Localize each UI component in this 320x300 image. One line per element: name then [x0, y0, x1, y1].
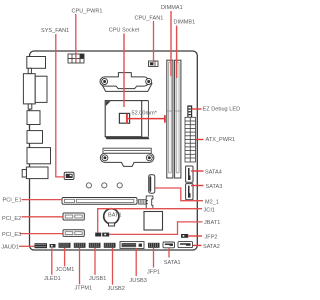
header JFP1: [148, 243, 160, 248]
connector SYS_FAN1: [64, 172, 74, 179]
header JCI1: [95, 233, 101, 237]
svg-text:JLED1: JLED1: [44, 276, 61, 282]
svg-text:JCOM1: JCOM1: [56, 267, 75, 273]
wire DIMMA1 leader: [170, 11, 172, 76]
wire JFP1 leader: [153, 248, 155, 268]
wire JFP2 leader: [188, 235, 202, 237]
svg-text:JFP1: JFP1: [147, 269, 160, 275]
wire JAUD1 leader: [19, 245, 35, 247]
svg-text:CPU_FAN1: CPU_FAN1: [135, 15, 164, 21]
svg-text:BAT1: BAT1: [108, 212, 122, 218]
wire JBAT1 leader: [109, 222, 202, 235]
wire PCI_E2 leader: [22, 216, 64, 218]
connector SATA1: [163, 242, 175, 248]
rear IO lan usb block: [27, 148, 51, 164]
wire EZ debug LED leader: [192, 108, 202, 110]
board outline: [30, 51, 198, 250]
wire SYS_FAN1 leader: [56, 34, 65, 177]
svg-text:52.00mm*: 52.00mm*: [132, 111, 158, 117]
wire JUSB2 leader: [112, 248, 114, 285]
mounting hole 2: [102, 183, 107, 188]
header JUSB1: [89, 243, 101, 248]
rear IO connector PS2: [27, 57, 46, 69]
svg-text:DIMMB1: DIMMB1: [174, 20, 196, 26]
wire JCOM1 leader: [64, 248, 66, 266]
svg-text:PCI_E3: PCI_E3: [2, 232, 21, 238]
svg-text:SATA1: SATA1: [164, 260, 181, 266]
svg-text:PCI_E2: PCI_E2: [2, 216, 21, 222]
rear IO block video left: [23, 74, 35, 104]
dimension red bar right: [164, 115, 166, 122]
svg-text:JCI1: JCI1: [204, 207, 216, 213]
wire PCI_E1 leader: [22, 199, 63, 201]
connector CPU_PWR1 8-pin grid: [68, 54, 84, 63]
svg-text:CPU_PWR1: CPU_PWR1: [72, 8, 103, 14]
svg-text:JUSB2: JUSB2: [108, 286, 125, 292]
wire SATA1 leader: [168, 248, 170, 258]
DIMM slot B: [175, 60, 181, 178]
connector ATX_PWR1 24-pin grid: [185, 117, 196, 162]
header JLED1: [50, 244, 56, 248]
wire CPU_FAN1 leader: [153, 21, 155, 62]
header JBAT1: [102, 233, 109, 237]
svg-text:EZ Debug LED: EZ Debug LED: [203, 107, 241, 113]
dimension red line: [128, 118, 164, 120]
wire JCI1 leader: [98, 209, 202, 233]
wire SATA2 leader: [193, 244, 202, 246]
rear IO audio notch: [22, 170, 26, 178]
rear IO small connector: [27, 111, 40, 125]
slot PCI_E1: [62, 198, 137, 205]
connector CPU_FAN1: [149, 61, 159, 67]
svg-text:ATX_PWR1: ATX_PWR1: [206, 137, 236, 143]
wire JLED1 leader: [51, 248, 53, 274]
header JUSB2: [104, 243, 116, 248]
slot PCI_E3: [63, 230, 84, 237]
DIMM slot A: [167, 60, 173, 178]
chipset: [144, 212, 163, 231]
dimension red bar left: [126, 114, 128, 124]
svg-text:CPU Socket: CPU Socket: [109, 28, 140, 34]
connector SATA2: [178, 242, 193, 248]
rear IO usb connector: [27, 131, 43, 144]
wire DIMMB1 leader: [176, 26, 178, 79]
DIMM key notch A: [168, 110, 173, 112]
slot PCI_E2: [63, 213, 84, 220]
header JCOM1: [59, 243, 71, 248]
header JFP2: [181, 234, 188, 238]
DIMM key notch B: [175, 110, 180, 112]
mounting hole 3: [117, 183, 122, 188]
svg-text:PCI_E1: PCI_E1: [3, 198, 22, 204]
svg-text:JUSB3: JUSB3: [130, 278, 147, 284]
svg-text:JBAT1: JBAT1: [204, 220, 220, 226]
svg-text:SATA4: SATA4: [205, 170, 222, 176]
wire SATA3 leader: [191, 185, 204, 187]
wire JTPM1 leader: [79, 248, 81, 284]
rear IO stub 2: [28, 104, 32, 109]
connector SATA4: [186, 166, 193, 182]
svg-text:JFP2: JFP2: [205, 234, 218, 240]
cooler bracket top: [100, 73, 152, 92]
PCI_E1 latch block: [146, 196, 153, 209]
wire ATX_PWR1 leader: [196, 139, 204, 141]
CPU socket: [105, 101, 149, 140]
wire M2_1 leader: [155, 188, 203, 201]
header JTPM1: [74, 243, 86, 248]
mounting hole 1: [86, 183, 91, 188]
battery BAT1: [104, 209, 122, 226]
PCI_E1 latch barrel: [136, 199, 146, 204]
svg-text:M2_1: M2_1: [205, 199, 219, 205]
svg-text:JAUD1: JAUD1: [1, 244, 19, 250]
svg-text:SATA2: SATA2: [203, 244, 220, 250]
wire SATA4 leader: [191, 170, 204, 172]
svg-text:SYS_FAN1: SYS_FAN1: [41, 28, 69, 34]
cooler bracket bottom: [100, 148, 154, 166]
header JAUD1: [35, 243, 48, 248]
EZ debug LED component: [187, 105, 192, 117]
rear IO block video right: [35, 76, 47, 102]
socket inner box: [119, 113, 129, 123]
rear IO stub 1: [28, 68, 31, 73]
wire PCI_E3 leader: [20, 233, 63, 235]
M.2 standoff M2_1: [149, 175, 155, 194]
svg-text:DIMMA1: DIMMA1: [161, 5, 183, 11]
connector SATA3: [186, 184, 193, 200]
wire CPU_PWR1 leader: [75, 14, 77, 62]
wire JUSB1 leader: [94, 248, 96, 275]
svg-text:SATA3: SATA3: [206, 184, 223, 190]
svg-text:JTPM1: JTPM1: [75, 286, 93, 292]
svg-text:JUSB1: JUSB1: [89, 276, 106, 282]
wire CPU Socket leader: [123, 34, 125, 108]
wire JUSB3 leader: [135, 249, 137, 276]
rear IO audio jacks: [26, 167, 48, 179]
header JUSB3: [120, 242, 144, 249]
